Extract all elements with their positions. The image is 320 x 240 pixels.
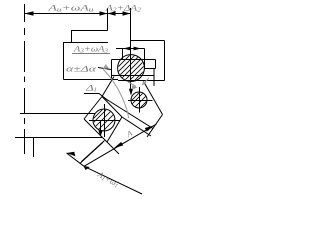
svg-text:A3+ωA3: A3+ωA3	[73, 44, 108, 55]
svg-text:α±Δα: α±Δα	[66, 64, 97, 74]
svg-text:A2+ΔA2: A2+ΔA2	[105, 3, 141, 14]
svg-text:Aи+ωAи: Aи+ωAи	[47, 3, 94, 14]
